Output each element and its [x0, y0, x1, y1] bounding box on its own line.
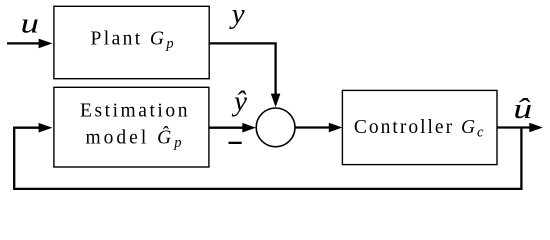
svg-text:û: û: [513, 93, 532, 125]
svg-text:y: y: [229, 0, 245, 30]
svg-text:Controller Gc: Controller Gc: [354, 117, 486, 141]
svg-text:model Ĝp: model Ĝp: [86, 126, 185, 151]
svg-text:Estimation: Estimation: [80, 101, 190, 122]
svg-text:u: u: [21, 7, 40, 39]
svg-text:ŷ: ŷ: [231, 86, 247, 118]
svg-text:Plant Gp: Plant Gp: [91, 29, 177, 53]
